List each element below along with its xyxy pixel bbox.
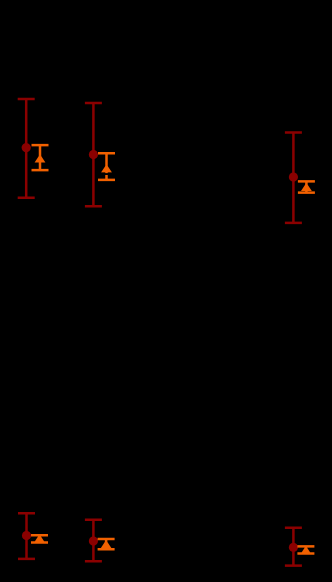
errorbar series A group 5 xyxy=(85,520,102,562)
errorbar series A (darkred, circle markers) group 1 top-left xyxy=(18,99,35,198)
errorbar series A group 6 bottom-right xyxy=(285,528,302,566)
errorbar series B (darkorange, triangle markers) group 1 top-left xyxy=(32,145,49,170)
errorbar series B group 2 xyxy=(98,153,115,180)
marker circle A5 xyxy=(89,536,98,545)
marker circle A6 xyxy=(289,543,298,552)
errorbar series B group 5 xyxy=(98,539,115,549)
errorbar series A group 4 bottom-left xyxy=(18,513,35,559)
marker triangle B6 xyxy=(301,546,312,554)
errorbar series B group 4 bottom-left xyxy=(31,535,48,542)
errorbar series A group 3 top-right xyxy=(285,133,302,223)
marker triangle B1 xyxy=(35,154,46,162)
errorbar series B group 3 top-right xyxy=(298,181,315,192)
marker triangle B3 xyxy=(301,183,312,191)
marker circle A1 xyxy=(22,143,31,152)
marker circle A4 xyxy=(22,531,31,540)
errorbar series A group 2 xyxy=(85,103,102,206)
marker triangle B2 xyxy=(101,164,112,172)
marker triangle B5 xyxy=(101,540,112,548)
errorbar series B group 6 bottom-right xyxy=(297,546,314,553)
marker triangle B4 xyxy=(34,534,45,542)
marker circle A3 xyxy=(289,172,298,181)
marker circle A2 xyxy=(89,150,98,159)
